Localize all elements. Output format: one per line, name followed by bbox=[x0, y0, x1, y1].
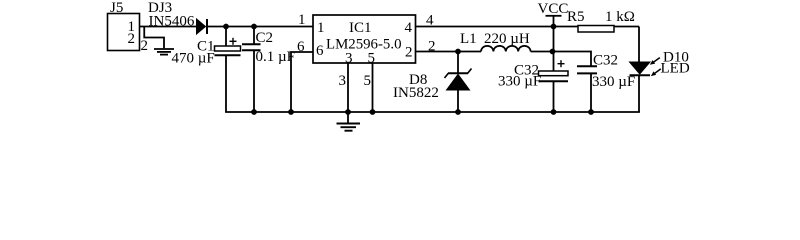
svg-text:LED: LED bbox=[661, 61, 690, 77]
svg-text:2: 2 bbox=[128, 31, 136, 47]
diode D8 bbox=[445, 52, 472, 113]
wire R5 corner down to LED bbox=[638, 27, 640, 63]
ground rail wire bbox=[225, 111, 640, 113]
wire L1 node to C32b corner bbox=[553, 52, 592, 67]
capacitor C1 bbox=[215, 27, 241, 113]
svg-text:1: 1 bbox=[317, 20, 325, 36]
node rail C32 second bbox=[588, 109, 594, 115]
wire J5 pin1 to diode bbox=[140, 26, 197, 28]
svg-text:5: 5 bbox=[368, 51, 376, 67]
capacitor C32 first bbox=[539, 52, 569, 113]
wire diode to IC pin 1 bbox=[207, 26, 313, 28]
svg-text:J5: J5 bbox=[110, 0, 123, 16]
svg-text:470 µF: 470 µF bbox=[172, 51, 215, 67]
LED arrows bbox=[650, 58, 661, 77]
node rail pin3 ground bbox=[345, 109, 351, 115]
resistor R5 bbox=[578, 26, 614, 33]
node rail pin6 bbox=[288, 109, 294, 115]
node C1 top junction bbox=[223, 24, 229, 30]
node rail D8 bbox=[455, 109, 461, 115]
capacitor C2 bbox=[242, 27, 261, 113]
svg-text:0.1 µF: 0.1 µF bbox=[256, 49, 296, 65]
ground G2 bbox=[337, 112, 361, 131]
wire IC pin3 down bbox=[347, 63, 349, 112]
wire LED to rail bbox=[638, 75, 640, 112]
node rail pin5 bbox=[370, 109, 376, 115]
svg-text:LM2596-5.0: LM2596-5.0 bbox=[326, 37, 402, 53]
svg-text:3: 3 bbox=[339, 73, 347, 89]
node VCC junction bbox=[551, 24, 557, 30]
node D8 junction bbox=[455, 49, 461, 55]
svg-text:IN5822: IN5822 bbox=[393, 85, 439, 101]
svg-text:6: 6 bbox=[316, 43, 324, 59]
node L1 output junction bbox=[550, 49, 556, 55]
wire IC pin2 to D8 node bbox=[416, 51, 459, 53]
wire IC pin5 down bbox=[372, 63, 374, 112]
svg-text:4: 4 bbox=[405, 20, 413, 36]
inductor L1 bbox=[458, 46, 553, 52]
svg-text:C2: C2 bbox=[256, 30, 274, 46]
connector J5 bbox=[108, 14, 140, 51]
svg-text:C32: C32 bbox=[593, 53, 618, 69]
op IC1 LM2596-5.0 bbox=[313, 15, 416, 67]
svg-text:1: 1 bbox=[298, 12, 306, 28]
svg-text:IC1: IC1 bbox=[349, 20, 372, 36]
svg-text:330 µF: 330 µF bbox=[592, 74, 635, 90]
wire J5 pin2 step to ground bbox=[144, 27, 164, 49]
diode DJ3 bbox=[197, 19, 208, 34]
node C2 top junction bbox=[251, 24, 257, 30]
capacitor C32 second bbox=[577, 66, 597, 112]
svg-text:R5: R5 bbox=[567, 9, 585, 25]
svg-text:L1: L1 bbox=[460, 31, 477, 47]
svg-text:330 µF: 330 µF bbox=[498, 74, 541, 90]
svg-text:5: 5 bbox=[364, 73, 372, 89]
wire IC pin6 to ground rail bbox=[291, 52, 313, 112]
node rail C2 bbox=[251, 109, 257, 115]
wire IC pin4 to LED corner bbox=[416, 26, 640, 28]
svg-text:2: 2 bbox=[405, 45, 413, 61]
svg-text:VCC: VCC bbox=[538, 1, 569, 17]
svg-text:2: 2 bbox=[141, 38, 149, 54]
wire VCC node down to L1 node bbox=[553, 27, 555, 52]
power VCC bbox=[538, 1, 569, 27]
LED D10 bbox=[630, 62, 651, 75]
node rail C32 first bbox=[551, 109, 557, 115]
ground G1 bbox=[154, 49, 174, 55]
svg-text:220 µH: 220 µH bbox=[484, 31, 530, 47]
svg-text:1 kΩ: 1 kΩ bbox=[605, 9, 635, 25]
